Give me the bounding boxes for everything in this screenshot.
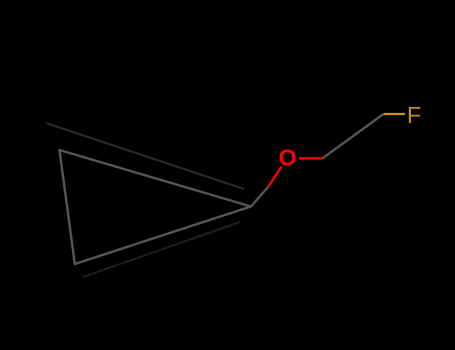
bond C1 to C2 bbox=[323, 114, 384, 158]
bond O to C1 (red) bbox=[299, 157, 323, 159]
bond C2 to F (gold) bbox=[384, 113, 406, 115]
ring cyclopropane C3a-C3b-C3c bbox=[60, 150, 252, 264]
svg-text:F: F bbox=[407, 102, 421, 128]
svg-text:O: O bbox=[279, 144, 297, 170]
wire ghost artifact below ring bottom edge bbox=[83, 222, 240, 277]
bond C3a to O (carbon half, gray) bbox=[251, 187, 269, 207]
bond C3a to O (oxygen half, red) bbox=[269, 167, 282, 187]
wire ghost artifact above ring top edge bbox=[46, 123, 244, 189]
